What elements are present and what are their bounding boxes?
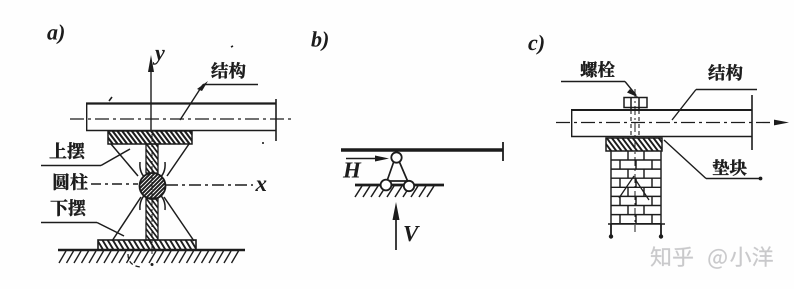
leader for pad label bbox=[664, 140, 762, 180]
x axis label bbox=[255, 180, 266, 191]
ground hatching part a bbox=[59, 251, 239, 263]
label luoshuan (bolt) bbox=[581, 61, 615, 77]
label H bbox=[343, 162, 362, 177]
small dashed mark under base bbox=[128, 254, 141, 267]
label xia bai (lower rocker) bbox=[51, 199, 86, 216]
pad (dian kuai) hatched bbox=[606, 138, 662, 151]
hinge circle part b bbox=[391, 152, 401, 162]
bolt bbox=[624, 98, 647, 137]
web of rocker (lower part) bbox=[146, 198, 158, 240]
y axis bbox=[148, 55, 154, 131]
leader for cylinder label bbox=[91, 183, 138, 185]
label jiegou (structure) part a bbox=[211, 62, 245, 79]
ground hatching part b bbox=[355, 186, 434, 197]
pier bottom break bbox=[608, 224, 665, 236]
label V bbox=[404, 226, 420, 241]
lower rocker (xia bai) outline bbox=[112, 197, 194, 241]
leader for structure label a bbox=[180, 81, 258, 120]
right base circle part b bbox=[404, 181, 414, 191]
watermark zhihu @xiaoyang bbox=[651, 246, 773, 268]
label jiegou (structure) part c bbox=[708, 64, 742, 81]
cylinder (yuan zhu) pin bbox=[140, 173, 166, 199]
beam (structure) part a bbox=[86, 99, 276, 141]
beam part b bbox=[341, 142, 503, 161]
leader for bolt label bbox=[561, 82, 639, 98]
y axis label bbox=[153, 50, 165, 65]
label yuan zhu (cylinder) bbox=[54, 173, 88, 190]
scan speck marks bbox=[109, 46, 264, 143]
label dian kuai (pad) bbox=[713, 159, 747, 175]
vertical centerline of rocker bbox=[151, 134, 153, 258]
label a) bbox=[47, 24, 64, 44]
left base circle part b bbox=[381, 180, 392, 191]
ground line part b bbox=[355, 184, 444, 187]
upper rocker (shang bai) outline bbox=[111, 144, 189, 210]
leader for structure label c bbox=[672, 90, 757, 121]
vertical centerline part c bbox=[634, 89, 636, 232]
beam part c bbox=[571, 95, 752, 150]
label c) bbox=[528, 35, 543, 55]
web of rocker (upper part) bbox=[146, 144, 158, 173]
x axis bbox=[166, 184, 253, 186]
force H arrow bbox=[346, 156, 389, 162]
beam centerline part a bbox=[70, 118, 293, 120]
label shang bai (upper rocker) bbox=[50, 142, 85, 159]
leader for upper rocker label bbox=[41, 149, 130, 166]
brick pier bbox=[611, 151, 661, 224]
ground line part a bbox=[58, 249, 245, 252]
label b) bbox=[311, 31, 328, 51]
top flange of rocker bearing bbox=[108, 131, 192, 144]
stray diagonal marks inside pier bbox=[619, 176, 649, 200]
force V arrow bbox=[393, 202, 400, 250]
beam centerline part c with arrow bbox=[556, 122, 773, 124]
base plate of lower rocker bbox=[98, 240, 196, 250]
leader for lower rocker label bbox=[41, 223, 124, 237]
support triangle legs part b bbox=[387, 161, 408, 182]
